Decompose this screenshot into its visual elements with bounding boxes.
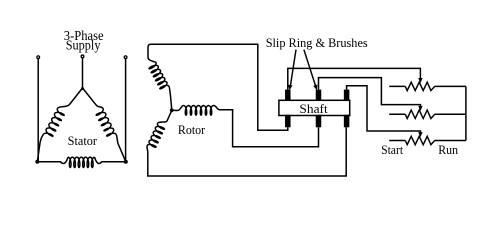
arrowhead onto rheostat 1 [418, 78, 422, 83]
svg-text:Run: Run [438, 143, 458, 157]
svg-text:Slip Ring & Brushes: Slip Ring & Brushes [266, 35, 368, 50]
junction stator apex [81, 87, 84, 90]
inductor stator bottom winding [68, 157, 95, 167]
junction stator right vertex [124, 160, 128, 164]
resistor rheostat 2 right lead [435, 113, 466, 115]
inductor rotor lower winding [147, 123, 164, 147]
wire brush 1 to rheostat 1 wiper [288, 68, 421, 89]
wire phase C to stator right vertex [125, 59, 127, 162]
supply terminal L3 [124, 56, 127, 59]
inductor rotor upper winding [149, 62, 169, 89]
arrowhead onto rheostat 2 [418, 106, 422, 111]
shaft body [279, 100, 350, 115]
wire rotor star point to middle winding [172, 106, 184, 111]
brush top 3 [344, 90, 350, 101]
brush bottom 2 [316, 115, 322, 128]
svg-text:Shaft: Shaft [299, 101, 328, 116]
wire slip ring 1 to rotor upper winding [148, 44, 288, 130]
wire rotor middle winding to slip ring 2 [214, 106, 319, 147]
junction stator left vertex [35, 160, 39, 164]
inductor rotor middle winding [184, 106, 214, 116]
wire brush 2 to rheostat 2 wiper [319, 78, 421, 107]
arrow label to brush 2 [304, 50, 316, 87]
inductor stator left winding [43, 108, 64, 136]
resistor rheostat 2 left lead [389, 113, 405, 115]
resistor rheostat 3 element [405, 136, 434, 144]
wire right winding to right vertex [116, 134, 126, 161]
brush bottom 3 [344, 115, 350, 128]
wire brush 3 to rheostat 3 wiper [347, 86, 421, 134]
wire rotor upper winding to star point [169, 86, 172, 110]
resistor rheostat 1 right lead [435, 85, 466, 87]
resistor rheostat 2 element [405, 110, 434, 118]
resistor rheostat 1 left lead [389, 85, 405, 87]
wire left winding to left vertex [37, 134, 43, 161]
arrowhead onto rheostat 3 [418, 132, 422, 137]
arrow label to brush 1 [290, 50, 296, 87]
brush top 2 [316, 90, 322, 101]
supply terminal L2 [81, 55, 84, 58]
resistor rheostat 3 left lead [389, 140, 405, 142]
supply terminal L1 [37, 56, 40, 59]
resistor rheostat 1 element [405, 82, 434, 90]
wire stator bottom right segment [95, 157, 126, 163]
wire rotor lower winding to slip ring 3 [147, 127, 346, 176]
wire stator apex to left winding [57, 88, 82, 108]
wire phase B to stator apex [82, 58, 84, 88]
wire common bus joining rheostats [465, 86, 467, 140]
svg-text:Rotor: Rotor [178, 123, 206, 137]
brush bottom 1 [285, 115, 291, 128]
svg-text:Supply: Supply [66, 37, 101, 52]
wire stator bottom left segment [37, 157, 68, 163]
inductor stator right winding [96, 108, 116, 136]
resistor rheostat 3 right lead [435, 140, 466, 142]
wire stator apex to right winding [83, 88, 104, 108]
svg-text:Stator: Stator [68, 134, 98, 148]
brush top 1 [285, 90, 291, 101]
wire phase A to stator left vertex [37, 59, 39, 162]
junction rotor star point [170, 108, 174, 112]
wire rotor star point to lower winding [158, 110, 172, 123]
svg-text:Start: Start [381, 143, 403, 157]
